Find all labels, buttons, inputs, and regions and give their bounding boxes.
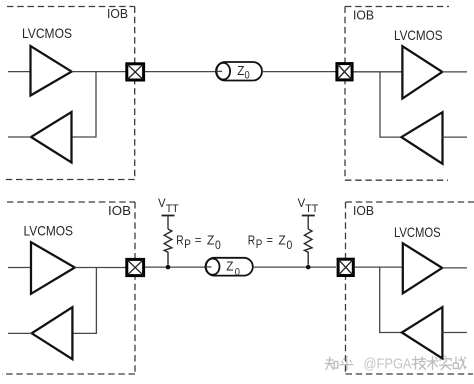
战 [456,357,466,370]
transmission line Z0 bottom (cylinder) [206,258,253,276]
svg-text:P: P [184,238,191,251]
input buffer U2 top-left [31,112,72,163]
resistor RP right [304,229,312,265]
label VTT right [298,196,319,215]
wire pad P4 to input buffer U7 [355,266,403,268]
wire U3 output to right [442,71,467,73]
svg-text:LVCMOS: LVCMOS [22,26,72,41]
wire feedback vertical bottom-left [72,268,96,334]
svg-text:Z: Z [207,234,215,248]
output buffer U8 bottom-right [402,307,443,358]
svg-text:=: = [266,233,273,247]
label Z0 bottom [226,259,240,279]
svg-text:@FPGA: @FPGA [364,356,412,372]
wire stub entering cylinder bottom [206,266,211,268]
svg-text:IOB: IOB [107,7,128,21]
wire pad P2 to input buffer U3 [354,71,403,73]
input buffer U6 bottom-left [32,307,73,359]
wire U2 output to left [8,136,31,138]
实 [440,356,452,370]
术 [427,357,438,370]
svg-text:TT: TT [166,203,179,215]
pad P4 bottom-right crossed square [338,259,353,275]
watermark 知乎 @FPGA技术实战 [326,356,467,373]
svg-text:0: 0 [287,239,293,252]
wire transmission line to pad P2 [262,71,336,73]
wire transmission line to node B [253,266,336,268]
svg-text:Z: Z [226,259,233,274]
svg-text:P: P [256,238,263,251]
output buffer U5 bottom-left [31,242,75,294]
wire stub entering cylinder top [217,70,223,72]
IOB boundary box bottom-right [346,202,474,374]
wire input to driver U1 [8,71,31,73]
label RP = Z0 left [176,233,221,252]
wire pad P3 to node A [145,266,211,268]
label VTT left [158,196,179,215]
IOB boundary box bottom-left [2,202,135,374]
乎 [340,357,352,370]
svg-text:IOB: IOB [353,8,374,22]
pad P3 bottom-left crossed square [127,259,144,275]
label Z0 top [237,63,249,82]
output buffer U1 top-left [31,46,72,96]
svg-text:TT: TT [305,203,318,215]
svg-text:R: R [248,234,255,248]
wire input to driver U5 [8,267,31,269]
pad P2 top-right crossed square [337,64,352,80]
VTT supply symbol left [162,216,175,230]
input buffer U3 top-right [402,46,442,98]
wire U1 output to pad [72,71,126,73]
wire U4 input from right [443,136,468,138]
input buffer U7 bottom-right [403,243,442,293]
IOB boundary box top-left [2,7,135,180]
node A junction dot left [166,265,171,270]
label RP = Z0 right [248,233,292,252]
svg-text:R: R [176,234,183,248]
wire feedback vertical top-right [380,72,401,137]
wire pad P1 to transmission line [145,71,222,73]
知 [326,357,335,370]
wire U6 output to left [8,332,32,334]
svg-text:LVCMOS: LVCMOS [394,225,441,240]
svg-text:LVCMOS: LVCMOS [24,224,74,239]
svg-text:IOB: IOB [108,204,131,218]
svg-text:Z: Z [237,63,244,78]
wire U5 output to pad [75,267,127,269]
wire feedback vertical top-left [72,72,97,137]
pad P1 top-left crossed square [127,64,144,80]
svg-text:LVCMOS: LVCMOS [394,28,443,43]
svg-text:0: 0 [215,239,221,252]
svg-text:0: 0 [235,267,240,279]
wire feedback vertical bottom-right [380,267,402,332]
resistor RP left [164,229,172,265]
svg-text:0: 0 [245,70,250,82]
output buffer U4 top-right [401,112,442,164]
svg-text:Z: Z [278,234,286,248]
wire U7 output to right [442,267,467,269]
svg-text:=: = [195,233,202,247]
IOB boundary box top-right [345,7,449,181]
transmission line Z0 top (cylinder) [216,62,262,81]
svg-text:IOB: IOB [353,204,374,218]
wire U8 input from right [442,332,467,334]
VTT supply symbol right [302,216,315,230]
技 [413,357,426,370]
node B junction dot right [306,265,311,270]
